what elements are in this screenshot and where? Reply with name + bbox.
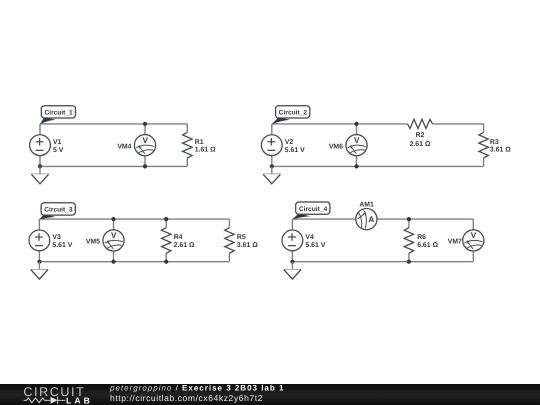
wire: VM7 top lead [472,219,474,230]
svg-text:A: A [368,215,374,224]
ammeter AM1 [356,202,377,230]
svg-text:LAB: LAB [66,395,93,405]
wire: circuit 2 bottom rail [272,165,484,167]
wire: circuit 4 top rail right of AM1 [377,218,473,220]
footer bar [0,384,540,405]
wire: V3 top lead [38,219,40,230]
annotation tag Circuit_1 [40,106,76,125]
svg-text:5 V: 5 V [53,147,64,154]
wire: circuit 2 top rail right of R2 [433,123,484,125]
wire: VM7 bottom lead [472,251,474,262]
svg-text:V3: V3 [52,234,61,241]
junction: VM6 bottom node [354,164,358,168]
wire: V2 top lead [271,124,273,134]
svg-text:V: V [471,231,477,240]
voltage source V1 5 V [30,135,64,156]
wire: circuit 4 top rail left of AM1 [292,218,355,220]
wire: VM4 bottom lead [144,156,146,167]
wire: circuit 1 bottom rail [40,165,187,167]
svg-text:R6: R6 [417,234,426,241]
junction: R4 top node [164,217,168,221]
svg-text:5.61 V: 5.61 V [285,147,305,154]
wire: circuit 1 top rail [40,123,187,125]
voltmeter VM7 [448,230,484,251]
wire: V1 bottom lead [39,156,41,166]
svg-text:petergroppino / Execrise 3 2B0: petergroppino / Execrise 3 2B03 lab 1 [109,384,284,393]
svg-text:Circuit_2: Circuit_2 [279,110,308,117]
junction: V1 bottom / ground node [38,164,42,168]
svg-text:V: V [111,231,117,240]
svg-text:VM5: VM5 [86,239,100,246]
resistor R5 3.61 ohm [225,219,259,262]
wire: V4 bottom lead [291,251,293,262]
wire: VM5 bottom lead [113,251,115,262]
voltmeter VM5 [86,230,124,251]
junction: R6 top node [407,217,411,221]
annotation tag Circuit_3 [39,203,75,220]
voltage source V4 5.61 V [282,230,326,251]
svg-text:2.61 Ω: 2.61 Ω [174,242,195,249]
logo resistor zigzag [24,398,51,403]
svg-text:R5: R5 [237,234,246,241]
wire: VM6 bottom lead [356,156,358,167]
voltmeter VM6 [329,135,367,156]
wire: circuit 2 top rail left of R2 [272,123,408,125]
svg-text:http://circuitlab.com/cx64kz2y: http://circuitlab.com/cx64kz2y6h7t2 [110,393,263,403]
wire: circuit 3 bottom rail [39,261,229,263]
junction: VM5 bottom node [111,260,115,264]
resistor R1 1.61 ohm [183,124,217,166]
ground (circuit 1) [31,166,48,183]
wire: V1 top lead [39,124,41,134]
ground (circuit 4) [284,262,301,279]
svg-text:AM1: AM1 [359,202,374,209]
resistor R3 3.61 ohm [479,124,511,166]
wire: V4 top lead [291,219,293,230]
svg-text:R2: R2 [416,132,425,139]
wire: V3 bottom lead [38,251,40,262]
svg-text:3.61 Ω: 3.61 Ω [490,147,511,154]
svg-text:VM6: VM6 [329,143,343,150]
wire: VM5 top lead [113,219,115,230]
junction: R6 bottom node [407,260,411,264]
svg-text:R4: R4 [174,234,183,241]
logo diode [51,397,58,404]
svg-text:6.61 Ω: 6.61 Ω [417,242,438,249]
voltmeter VM4 [117,135,155,156]
svg-text:Circuit_1: Circuit_1 [45,110,74,117]
voltage source V3 5.61 V [29,230,73,251]
wire: circuit 3 top rail [39,218,229,220]
svg-text:V4: V4 [305,234,314,241]
annotation tag Circuit_4 [292,202,330,219]
resistor R4 2.61 ohm [162,219,196,262]
junction: VM6 top node [354,122,358,126]
wire: circuit 4 bottom rail [292,261,473,263]
svg-text:Circuit_4: Circuit_4 [299,206,328,213]
resistor R6 6.61 ohm [404,219,438,262]
svg-text:5.61 V: 5.61 V [52,242,72,249]
junction: VM4 bottom node [143,164,147,168]
wire: V2 bottom lead [271,156,273,166]
svg-text:3.61 Ω: 3.61 Ω [237,242,258,249]
svg-text:VM7: VM7 [448,239,462,246]
junction: VM5 top node [111,217,115,221]
junction: V2 bottom / ground node [270,164,274,168]
svg-text:5.61 V: 5.61 V [305,242,325,249]
junction: V3 bottom / ground node [37,260,41,264]
svg-text:V: V [142,136,148,145]
junction: R4 bottom node [164,260,168,264]
annotation tag Circuit_2 [272,106,310,125]
wire: VM6 top lead [356,124,358,135]
wire: VM4 top lead [144,124,146,135]
ground (circuit 3) [31,262,48,279]
svg-text:V: V [354,136,360,145]
svg-text:2.61 Ω: 2.61 Ω [410,141,431,148]
svg-text:Circuit_3: Circuit_3 [44,207,73,214]
svg-text:1.61 Ω: 1.61 Ω [195,147,216,154]
svg-text:R3: R3 [490,139,499,146]
svg-text:V2: V2 [285,139,294,146]
svg-text:VM4: VM4 [117,143,131,150]
resistor R2 2.61 ohm [408,119,433,148]
ground (circuit 2) [263,166,280,183]
voltage source V2 5.61 V [261,135,305,156]
svg-text:V1: V1 [53,139,62,146]
svg-text:R1: R1 [195,139,204,146]
junction: V4 bottom / ground node [290,260,294,264]
junction: VM4 top node [143,122,147,126]
